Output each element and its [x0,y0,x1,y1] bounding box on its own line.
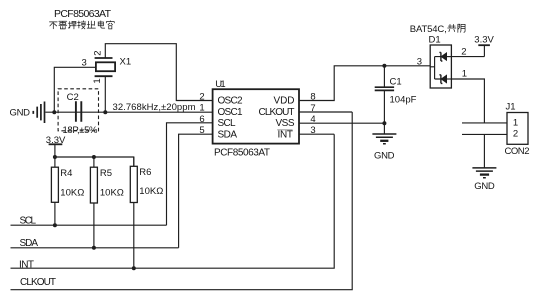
svg-text:D1: D1 [429,34,441,45]
schottky diode top [439,52,442,61]
junction node INT/R6 [132,266,136,270]
wire J1 pin2 [462,133,507,135]
wire D1 pin2 to 3.3V [451,56,484,58]
junction node crystal pin3/gnd [52,110,56,114]
svg-text:U1: U1 [215,79,226,90]
svg-text:2: 2 [199,91,204,102]
junction node C1 top [382,64,386,68]
crystal pin 3 case wire to gnd net [54,67,96,112]
svg-text:3: 3 [82,57,87,68]
junction node SCL/R4 [53,223,57,227]
svg-text:CON2: CON2 [505,146,530,157]
svg-text:104pF: 104pF [390,94,417,105]
svg-text:GND: GND [374,150,395,161]
svg-text:VDD: VDD [274,96,295,107]
svg-text:10KΩ: 10KΩ [60,187,84,198]
wire J1 pin1 [462,122,507,124]
svg-text:X1: X1 [120,56,132,67]
svg-text:J1: J1 [506,101,516,112]
svg-text:PCF85063AT: PCF85063AT [214,147,270,158]
svg-text:CLKOUT: CLKOUT [259,107,295,118]
resistor R4 [51,157,58,225]
svg-text:1: 1 [92,78,103,83]
svg-text:10KΩ: 10KΩ [100,187,124,198]
wire SDA line [11,247,179,249]
wire D1 pin1 down to J1 pin1 [451,79,484,123]
svg-text:2: 2 [513,129,518,140]
ground below C1 [372,123,396,144]
svg-text:INT: INT [278,129,294,140]
wire VDD pin8 to top rail [299,66,430,101]
wire INT pin3 stub [299,133,334,135]
ground symbol left (rotated) [33,102,44,124]
svg-text:C1: C1 [390,76,402,87]
svg-text:SCL: SCL [218,118,236,129]
svg-text:32.768kHz,±20ppm: 32.768kHz,±20ppm [113,102,196,113]
crystal X1 [95,58,116,76]
svg-text:GND: GND [474,181,495,192]
svg-text:3.3V: 3.3V [474,34,494,45]
dual diode D1 (BAT54C) [430,45,451,88]
svg-text:R4: R4 [60,168,72,179]
connector J1 [507,113,528,145]
svg-text:1: 1 [199,103,204,114]
svg-text:R6: R6 [139,167,151,178]
svg-text:10KΩ: 10KΩ [139,186,163,197]
junction node SDA/R5 [92,246,96,250]
junction node R5 top [92,155,96,159]
svg-text:GND: GND [10,107,31,118]
svg-text:3: 3 [417,57,422,68]
junction node crystal pin1 [103,110,107,114]
internal common cathode link [430,57,440,79]
svg-text:1: 1 [462,68,467,79]
schottky diode bottom [439,75,442,84]
svg-text:2: 2 [461,46,466,57]
svg-text:CLKOUT: CLKOUT [20,277,56,288]
wire SDA pin5 to SDA line [179,134,213,248]
svg-text:SCL: SCL [20,216,37,227]
svg-text:SDA: SDA [218,129,238,140]
note text 不需焊接此电容 [49,21,114,29]
wire INT line [11,134,335,268]
power rail 3.3V right [478,45,490,56]
svg-text:OSC1: OSC1 [218,107,243,118]
svg-text:PCF85063AT: PCF85063AT [54,8,112,20]
svg-text:VSS: VSS [276,118,295,129]
svg-text:3.3V: 3.3V [46,135,66,146]
crystal pin1 wire down [104,76,106,112]
wire OSC1 net (main horizontal) [45,111,212,113]
wire pullup distribution [55,157,134,166]
capacitor C1 [375,66,394,123]
junction node R4 top [53,155,57,159]
wire CLKOUT line [11,112,353,290]
wire CLKOUT pin7 stub [299,111,352,113]
ground below J1 [472,168,496,178]
svg-text:INT: INT [19,260,34,271]
junction node C1 bottom / VSS [382,121,386,125]
wire SCL line [11,224,167,226]
power rail 3.3V left [49,144,63,157]
svg-text:2: 2 [93,51,104,56]
dashed DNP box around C2 [58,89,98,131]
resistor R5 [90,157,97,248]
svg-text:1: 1 [513,117,518,128]
wire VSS pin4 to C1 bottom [299,122,384,124]
crystal X1 pin2 wire to U1 OSC2 [105,44,212,101]
svg-text:C2: C2 [67,92,79,103]
wire J1 pin2 to ground [483,134,485,167]
capacitor C2 [76,101,81,122]
IC U1 box [213,89,299,143]
svg-text:SDA: SDA [20,238,39,249]
wire SCL pin6 to SCL line [167,123,213,225]
svg-text:OSC2: OSC2 [218,96,243,107]
svg-text:R5: R5 [100,168,112,179]
resistor R6 [130,157,137,268]
